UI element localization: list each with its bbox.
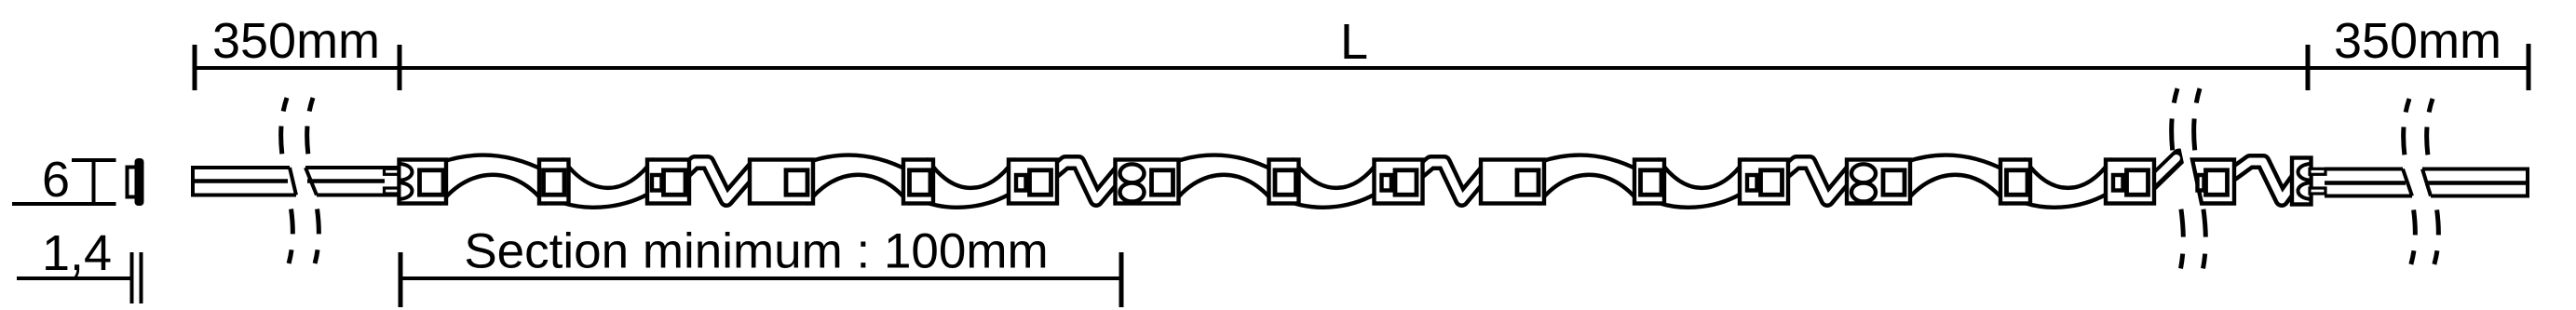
right cable segment 1	[2325, 169, 2412, 196]
svg-text:Section minimum : 100mm: Section minimum : 100mm	[464, 224, 1048, 279]
valley ribbon 4	[1659, 160, 1745, 208]
zigzag ribbon 2	[1051, 163, 1122, 200]
LED pad 3	[1269, 160, 1299, 204]
hump ribbon 1	[441, 155, 545, 204]
dimension line top horizontal	[195, 66, 2529, 70]
side view PCB bar	[135, 158, 144, 206]
resistor 5	[2113, 175, 2123, 191]
LED square r2	[1030, 170, 1051, 195]
resistor 3	[1382, 175, 1392, 191]
dim 1,4 line	[17, 276, 131, 280]
resistor pad 4	[1740, 160, 1788, 204]
LED square block 5	[1883, 170, 1905, 195]
svg-text:L: L	[1340, 14, 1368, 70]
right cable segment 2	[2422, 168, 2528, 198]
hump ribbon 5	[1905, 155, 2006, 204]
main block 2	[750, 160, 813, 204]
svg-text:350mm: 350mm	[2334, 13, 2501, 69]
right connector semicircle top	[2298, 164, 2312, 181]
dim section tick left	[399, 252, 403, 307]
zigzag ribbon tail	[2231, 162, 2298, 200]
main block 3	[1116, 160, 1179, 204]
zigzag ribbon 1	[683, 163, 753, 200]
solder pad circles block 5	[1851, 164, 1876, 182]
LED square pad 4	[1641, 170, 1662, 195]
resistor 2	[1016, 175, 1026, 191]
LED square block 2	[786, 170, 807, 195]
connector block right end	[2292, 158, 2312, 205]
zigzag ribbon 4	[1783, 163, 1853, 200]
LED pad 5	[2000, 160, 2030, 204]
valley ribbon 2	[928, 160, 1014, 208]
dimension tick shared 350mm/L	[398, 45, 402, 90]
LED pad 4	[1634, 160, 1664, 204]
LED square r3	[1395, 170, 1417, 195]
hump ribbon 4	[1539, 155, 1640, 204]
dim 1,4 tick a	[130, 252, 134, 303]
connector pad semicircle top	[400, 164, 413, 181]
dim 6 vertical	[92, 160, 96, 204]
zigzag ribbon 3	[1417, 163, 1488, 200]
dim section tick right	[1119, 252, 1124, 307]
strip break mark	[2172, 88, 2184, 282]
right cable break mark	[2404, 99, 2416, 270]
svg-text:1,4: 1,4	[42, 225, 112, 281]
hump ribbon 2	[807, 155, 909, 204]
LED square pad 5	[2007, 170, 2028, 195]
resistor pad 3	[1375, 160, 1423, 204]
LED square r4	[1761, 170, 1783, 195]
resistor pad 2	[1009, 160, 1057, 204]
partial resistor after break	[2198, 175, 2204, 191]
LED square r1	[664, 170, 686, 195]
hump ribbon 3	[1173, 155, 1275, 204]
resistor 4	[1747, 175, 1757, 191]
dimension tick shared L/right 350mm	[2306, 45, 2311, 90]
dimension tick left 350mm start	[193, 45, 197, 90]
resistor pad 1	[647, 160, 689, 204]
svg-text:350mm: 350mm	[212, 13, 380, 69]
left cable segment 2	[305, 168, 400, 195]
LED square 1	[544, 170, 565, 195]
resistor 1	[652, 175, 662, 191]
valley ribbon 3	[1294, 160, 1380, 208]
left cable break mark	[281, 98, 293, 270]
dim section minimum line	[400, 276, 1121, 280]
LED pad 1	[539, 160, 569, 204]
LED square pad 2	[910, 170, 931, 195]
LED square pad 3	[1275, 170, 1296, 195]
dimension tick right end	[2527, 44, 2531, 90]
dim 6 top bar	[72, 158, 116, 162]
LED square block 4	[1517, 170, 1539, 195]
zigzag ribbon cut by break	[2149, 156, 2179, 186]
cut LED pad after break	[2192, 160, 2234, 204]
resistor pad 5	[2106, 160, 2154, 204]
svg-text:6: 6	[42, 152, 70, 208]
LED square r5	[2127, 170, 2149, 195]
main block 5	[1847, 160, 1910, 204]
side view LED bump	[128, 168, 138, 197]
right connector semicircle bottom	[2298, 182, 2312, 199]
LED square on connector block	[420, 170, 444, 195]
LED pad 2	[903, 160, 933, 204]
main block 4	[1481, 160, 1544, 204]
valley ribbon 5	[2025, 160, 2111, 208]
LED square after break	[2206, 170, 2228, 195]
LED square block 3	[1152, 170, 1173, 195]
dim 6 bottom line	[12, 202, 116, 206]
left cable segment 1	[193, 166, 296, 197]
connector pad semicircle bottom	[400, 182, 413, 199]
dim 1,4 tick b	[140, 252, 143, 303]
valley ribbon 1	[563, 160, 654, 208]
solder pad circles block 3	[1120, 164, 1145, 182]
connector block left end	[400, 160, 447, 204]
right cable stubs	[2310, 168, 2325, 174]
